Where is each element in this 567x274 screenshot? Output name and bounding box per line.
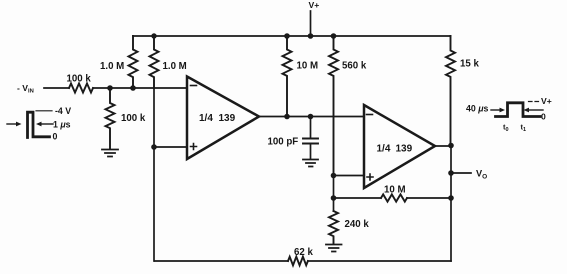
ground under 240k <box>326 245 342 252</box>
node junction rail-10M <box>284 33 290 39</box>
resistor 100k series input <box>69 84 93 93</box>
svg-text:- VIN: - VIN <box>17 83 34 95</box>
node junction output-15k <box>448 143 454 149</box>
node junction input-1.0M left <box>130 85 136 91</box>
svg-text:1.0 M: 1.0 M <box>100 61 124 72</box>
wire U1 output line to U2 minus input <box>259 116 364 118</box>
svg-text:1 μs: 1 μs <box>53 120 71 130</box>
svg-text:240 k: 240 k <box>345 219 370 230</box>
wire 560k node down to feedback node <box>333 176 335 199</box>
node junction rail-V+ <box>308 33 314 39</box>
svg-text:100 k: 100 k <box>121 113 146 124</box>
resistor 15k <box>446 36 455 146</box>
svg-text:0: 0 <box>53 132 58 142</box>
U2 plus input mark <box>367 174 373 180</box>
wire top supply rail <box>133 35 451 37</box>
op-amp comparator U2 1/4 LM139 <box>364 105 435 188</box>
node junction 240k-10M feedback <box>331 195 337 201</box>
node junction input-100k shunt <box>107 85 113 91</box>
node junction rail-560k <box>331 33 337 39</box>
node junction 560k-plus input <box>331 173 337 179</box>
wire left feedback vertical <box>153 88 155 261</box>
node junction feedback right <box>448 195 454 201</box>
resistor 1.0M left <box>129 36 138 88</box>
svg-text:V+: V+ <box>541 96 552 106</box>
svg-text:560 k: 560 k <box>342 61 367 72</box>
resistor 560k <box>329 36 338 176</box>
wire input node line to comparator minus input <box>93 87 187 89</box>
svg-text:15 k: 15 k <box>460 59 479 70</box>
output pulse waveform icon <box>466 96 552 133</box>
wire U2 plus input line <box>334 175 365 177</box>
resistor 1.0M right <box>150 36 159 88</box>
node junction Vo tap <box>448 170 454 176</box>
wire output vertical down <box>450 146 452 262</box>
U1 minus input mark <box>191 85 197 87</box>
svg-text:100 k: 100 k <box>67 74 92 85</box>
resistor 100k shunt to ground <box>106 88 115 149</box>
svg-text:t1: t1 <box>521 123 527 134</box>
svg-text:10 M: 10 M <box>384 185 406 196</box>
resistor 62k <box>288 257 308 266</box>
resistor 10M pull-up <box>283 36 292 117</box>
node Vo label <box>476 169 487 181</box>
svg-text:t0: t0 <box>503 123 509 134</box>
node -VIN input label <box>17 83 34 95</box>
U2 minus input mark <box>367 114 373 116</box>
node junction output-10M <box>284 114 290 120</box>
wire U2 output to node <box>435 145 451 147</box>
wire input lead <box>44 87 69 89</box>
svg-text:VO: VO <box>476 169 487 181</box>
svg-text:139: 139 <box>396 144 413 155</box>
svg-text:1.0 M: 1.0 M <box>163 61 187 72</box>
node junction plus input <box>151 144 157 150</box>
capacitor 100pF <box>310 117 312 139</box>
wire Vo stub <box>451 172 471 174</box>
node junction output-100pF <box>308 114 314 120</box>
wire U1 plus input line <box>154 146 187 148</box>
node V+ label <box>309 0 320 10</box>
U1 plus input mark <box>191 144 197 150</box>
input pulse waveform icon <box>7 111 53 124</box>
svg-text:40 μs: 40 μs <box>466 104 489 114</box>
svg-text:100 pF: 100 pF <box>268 137 299 148</box>
svg-text:139: 139 <box>219 113 236 124</box>
ground under 100pF <box>303 160 318 167</box>
svg-text:1/4: 1/4 <box>377 144 391 155</box>
svg-text:0: 0 <box>541 112 546 122</box>
svg-text:10 M: 10 M <box>297 61 319 72</box>
svg-text:V+: V+ <box>309 0 320 10</box>
resistor 10M feedback <box>334 197 382 199</box>
wire bottom feedback run <box>155 260 288 262</box>
node junction rail-1.0M right <box>151 33 156 38</box>
svg-text:1/4: 1/4 <box>199 113 213 124</box>
svg-text:62 k: 62 k <box>294 247 313 258</box>
svg-text:-4 V: -4 V <box>55 106 71 116</box>
ground under 100k shunt <box>102 150 118 157</box>
resistor 240k <box>333 198 335 211</box>
wire V+ stub <box>310 11 312 36</box>
op-amp comparator U1 1/4 LM139 <box>187 77 259 160</box>
